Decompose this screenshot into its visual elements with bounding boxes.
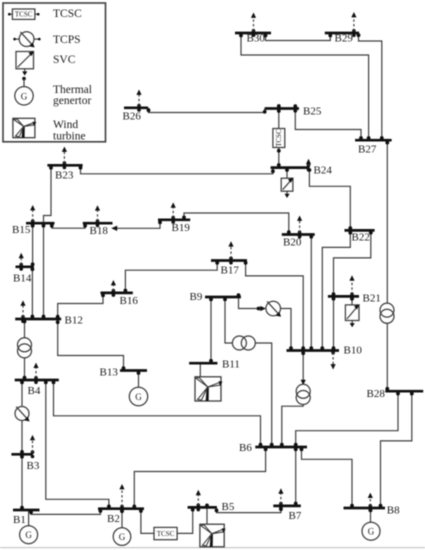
label B10 xyxy=(344,345,363,357)
legend frame xyxy=(3,3,106,142)
wire B2-G stub xyxy=(120,509,124,528)
svg-text:B2: B2 xyxy=(107,513,120,525)
bus B26 xyxy=(124,106,148,109)
bus B24 xyxy=(271,166,310,169)
legend SVC symbol xyxy=(16,51,34,76)
svg-text:TCSC: TCSC xyxy=(275,129,283,147)
wire B25-TCSC upper xyxy=(277,104,281,128)
svg-text:B19: B19 xyxy=(172,222,191,234)
wire B4-B6 xyxy=(52,380,263,447)
svg-text:B27: B27 xyxy=(358,144,377,156)
bus B11 xyxy=(189,362,217,365)
bus B7 xyxy=(273,505,301,508)
svg-text:B21: B21 xyxy=(363,293,381,305)
wire B1-B2 xyxy=(29,509,102,515)
wire B16-B12 xyxy=(56,293,105,319)
label B22 xyxy=(352,232,370,244)
label B24 xyxy=(314,165,333,177)
label B1 xyxy=(13,514,26,526)
svg-text:B20: B20 xyxy=(283,237,302,249)
label B17 xyxy=(221,265,240,277)
bus B25 xyxy=(265,107,299,110)
wire B22-B10 left xyxy=(320,230,352,350)
svg-text:B7: B7 xyxy=(289,510,302,522)
svg-text:B25: B25 xyxy=(303,106,322,118)
bus B5 xyxy=(188,506,217,509)
load arrow B14 xyxy=(19,253,24,271)
load arrow B29 xyxy=(351,12,356,37)
legend TCSC symbol xyxy=(8,9,40,19)
bus B1 xyxy=(13,509,40,512)
bus B6 xyxy=(255,446,307,449)
wire B5-wind stub xyxy=(205,504,209,525)
load arrow B18 xyxy=(95,205,100,227)
wire B29-B27 xyxy=(357,33,384,140)
TCPS P2 (B9-B10) xyxy=(266,301,281,317)
bus B8 xyxy=(344,507,386,510)
legend thermal generator symbol xyxy=(15,77,33,105)
svg-text:B9: B9 xyxy=(190,291,203,303)
faint page border bottom xyxy=(0,547,425,549)
svg-text:B1: B1 xyxy=(13,514,26,526)
wire B19-B20 xyxy=(182,213,291,235)
wire TCSC-B24 xyxy=(277,148,281,168)
svg-text:B15: B15 xyxy=(12,224,31,236)
wire B26-B25 xyxy=(147,108,267,114)
wind turbine W2 (B5) xyxy=(200,524,226,547)
label B25 xyxy=(303,106,322,118)
wire transformer-B6 xyxy=(255,343,273,447)
wire TCPS-B10 xyxy=(281,309,293,351)
svg-text:B22: B22 xyxy=(352,232,370,244)
wire B16-B17 xyxy=(124,261,220,293)
wire B12-B13 xyxy=(56,319,126,371)
bus B29 xyxy=(325,32,359,35)
wire B17-B10 xyxy=(244,261,305,351)
wire B24-SVC stub xyxy=(285,168,289,179)
legend wind turbine symbol xyxy=(13,118,37,137)
wire B15-B18 xyxy=(50,223,87,228)
label B11 xyxy=(222,359,240,371)
transformer T4 (B10-B6) xyxy=(296,384,310,404)
svg-text:B26: B26 xyxy=(123,111,142,123)
label B5 xyxy=(222,501,235,513)
svg-text:B3: B3 xyxy=(27,460,40,472)
svg-text:B5: B5 xyxy=(222,501,235,513)
wire B21-B10 xyxy=(332,296,336,350)
load arrow B24 xyxy=(306,159,311,172)
wire B25-B27 xyxy=(293,104,363,140)
wire B21-SVC stub xyxy=(350,296,354,305)
label B2 xyxy=(107,513,120,525)
wire B23-B15 xyxy=(44,165,53,223)
thermal generator G3 (B13) xyxy=(129,387,147,405)
load arrow B12 xyxy=(20,300,25,323)
wire B4-TCPS xyxy=(20,380,24,407)
SVC S1 (B24) xyxy=(281,178,293,198)
svg-text:B11: B11 xyxy=(222,359,240,371)
label B20 xyxy=(283,237,302,249)
label B21 xyxy=(363,293,381,305)
bus B10 xyxy=(287,349,340,352)
bus B17 xyxy=(211,259,247,262)
svg-text:B29: B29 xyxy=(335,33,354,45)
label B18 xyxy=(90,225,109,237)
bus B2 xyxy=(98,507,144,510)
wire B23-B24 xyxy=(79,165,275,174)
bus B28 xyxy=(385,390,423,393)
label B7 xyxy=(289,510,302,522)
load arrow B10 (down) xyxy=(331,351,336,370)
wire B12-transformer xyxy=(23,319,27,338)
svg-text:Wind: Wind xyxy=(53,119,78,131)
svg-text:B24: B24 xyxy=(314,165,333,177)
svg-text:B17: B17 xyxy=(221,265,240,277)
legend TCSC text xyxy=(53,8,82,20)
bus B3 xyxy=(11,453,33,456)
svg-text:B16: B16 xyxy=(120,295,139,307)
TCSC T2 (B2-B5) xyxy=(154,527,177,539)
legend wind turbine text xyxy=(53,119,86,142)
svg-text:G: G xyxy=(135,392,142,402)
wire B19-B18 with arrow xyxy=(111,220,162,231)
wire B9-TCPS xyxy=(237,293,266,311)
label B19 xyxy=(172,222,191,234)
wire B4-B2 xyxy=(44,380,111,509)
bus B22 xyxy=(345,229,375,232)
svg-text:B12: B12 xyxy=(65,315,83,327)
transformer T2 (B27-B28) xyxy=(380,303,394,323)
TCPS P1 (B4-B3) xyxy=(15,407,30,422)
thermal generator G2 (B2) xyxy=(113,528,131,546)
wire TCPS-B3 xyxy=(20,420,24,454)
svg-text:B18: B18 xyxy=(90,225,109,237)
wire B27-transformer xyxy=(385,140,389,303)
svg-text:B23: B23 xyxy=(55,170,74,182)
wire B28-B8 xyxy=(379,391,414,508)
wire B2-TCSC xyxy=(139,509,154,534)
svg-text:B6: B6 xyxy=(239,442,252,454)
bus B14 xyxy=(16,265,34,268)
label B13 xyxy=(100,367,119,379)
bus B19 xyxy=(158,218,190,221)
load arrow B2 xyxy=(119,484,124,513)
transformer T1 (B12-B4) xyxy=(18,338,32,358)
label B16 xyxy=(120,295,139,307)
wire B13-G stub xyxy=(137,371,141,388)
label B4 xyxy=(28,385,41,397)
load arrow B19 xyxy=(171,202,176,223)
svg-text:turbine: turbine xyxy=(53,131,86,143)
bus B4 xyxy=(15,379,59,382)
load arrow B5 xyxy=(196,490,201,512)
bus B12 xyxy=(15,318,61,321)
wire B30-B27 xyxy=(239,33,370,140)
label B15 xyxy=(12,224,31,236)
load arrow B17 xyxy=(228,241,233,264)
svg-text:B14: B14 xyxy=(13,273,32,285)
bus B27 xyxy=(355,139,392,142)
wire transformer-B6 lower xyxy=(280,405,303,448)
svg-text:SVC: SVC xyxy=(53,54,76,66)
svg-text:TCSC: TCSC xyxy=(157,530,175,538)
svg-text:Thermal: Thermal xyxy=(53,84,92,96)
svg-text:B28: B28 xyxy=(367,388,386,400)
legend TCPS symbol xyxy=(13,32,40,48)
TCSC T1 (B25-B24) xyxy=(273,129,285,148)
thermal generator G1 (B1) xyxy=(20,526,38,544)
label B8 xyxy=(387,505,400,517)
label B28 xyxy=(367,388,386,400)
svg-text:B30: B30 xyxy=(247,33,266,45)
wire B10-transformer xyxy=(301,351,306,385)
transformer T3 (B9 horizontal) xyxy=(232,336,255,350)
wire B11-wind stub xyxy=(199,363,201,377)
svg-text:B4: B4 xyxy=(28,385,41,397)
wire B9-B11 xyxy=(209,297,213,363)
bus B9 xyxy=(205,296,241,299)
wire B15-B14 xyxy=(31,223,35,267)
wire B28-B6 xyxy=(294,391,400,447)
bus B16 xyxy=(101,292,133,295)
label B12 xyxy=(65,315,83,327)
wire B6-B7 xyxy=(294,447,298,506)
load arrow B20 xyxy=(297,216,302,239)
wire B1-G stub xyxy=(28,510,30,526)
svg-text:G: G xyxy=(368,527,375,537)
label B29 xyxy=(335,33,354,45)
load arrow B21 xyxy=(349,275,354,300)
load arrow B8 xyxy=(368,493,373,512)
legend thermal generator text xyxy=(53,84,92,107)
wire B15-B12 xyxy=(42,223,46,319)
label B26 xyxy=(123,111,142,123)
label B9 xyxy=(190,291,203,303)
thermal generator G4 (B8) xyxy=(362,522,380,540)
load arrow B7 xyxy=(278,488,283,510)
bus B30 xyxy=(235,32,271,35)
wire TCSC-B5 xyxy=(177,507,195,533)
svg-text:G: G xyxy=(21,91,28,101)
svg-text:B8: B8 xyxy=(387,505,400,517)
wind turbine W1 (B11) xyxy=(195,377,223,401)
svg-text:B13: B13 xyxy=(100,367,119,379)
wire B24-B22 xyxy=(308,168,353,231)
svg-text:G: G xyxy=(25,530,32,540)
wire B8-G stub xyxy=(369,508,373,522)
bus B20 xyxy=(282,233,315,236)
legend SVC text xyxy=(53,54,76,66)
svg-text:TCPS: TCPS xyxy=(53,34,81,46)
label B6 xyxy=(239,442,252,454)
load arrow B26 xyxy=(136,90,141,112)
load arrow B30 xyxy=(251,13,256,38)
label B3 xyxy=(27,460,40,472)
wire B3-B1 xyxy=(20,454,24,510)
bus B23 xyxy=(47,164,82,167)
label B27 xyxy=(358,144,377,156)
bus B18 xyxy=(83,222,113,225)
label B14 xyxy=(13,273,32,285)
wire B30-B29 xyxy=(264,33,333,41)
load arrow B4 xyxy=(33,363,38,384)
svg-text:G: G xyxy=(119,532,126,542)
SVC S2 (B21) xyxy=(345,304,359,327)
wire B2-B6 xyxy=(132,447,267,509)
load arrow B23 xyxy=(62,147,67,170)
load arrow B16 xyxy=(111,280,116,297)
wire B6-B8 xyxy=(300,447,354,508)
bus B21 xyxy=(328,295,359,298)
svg-text:TCSC: TCSC xyxy=(53,8,82,20)
bus B13 xyxy=(120,369,147,372)
wire transformer-B4 xyxy=(23,358,27,380)
svg-text:genertor: genertor xyxy=(53,95,91,107)
wire B5-B7 xyxy=(215,506,283,513)
svg-text:B10: B10 xyxy=(344,345,363,357)
wire B9-transformer xyxy=(223,297,232,343)
wire B14-B12 xyxy=(31,267,35,319)
label B30 xyxy=(247,33,266,45)
load arrow B3 xyxy=(30,435,35,458)
svg-text:TCSC: TCSC xyxy=(15,11,33,19)
wire B22-B21 xyxy=(332,230,373,296)
bus B15 xyxy=(26,222,55,225)
legend TCPS text xyxy=(53,34,81,46)
wire transformer-B28 xyxy=(385,323,389,391)
wire B20-B10 xyxy=(309,235,313,351)
label B23 xyxy=(55,170,74,182)
load arrow B15 xyxy=(30,205,35,227)
